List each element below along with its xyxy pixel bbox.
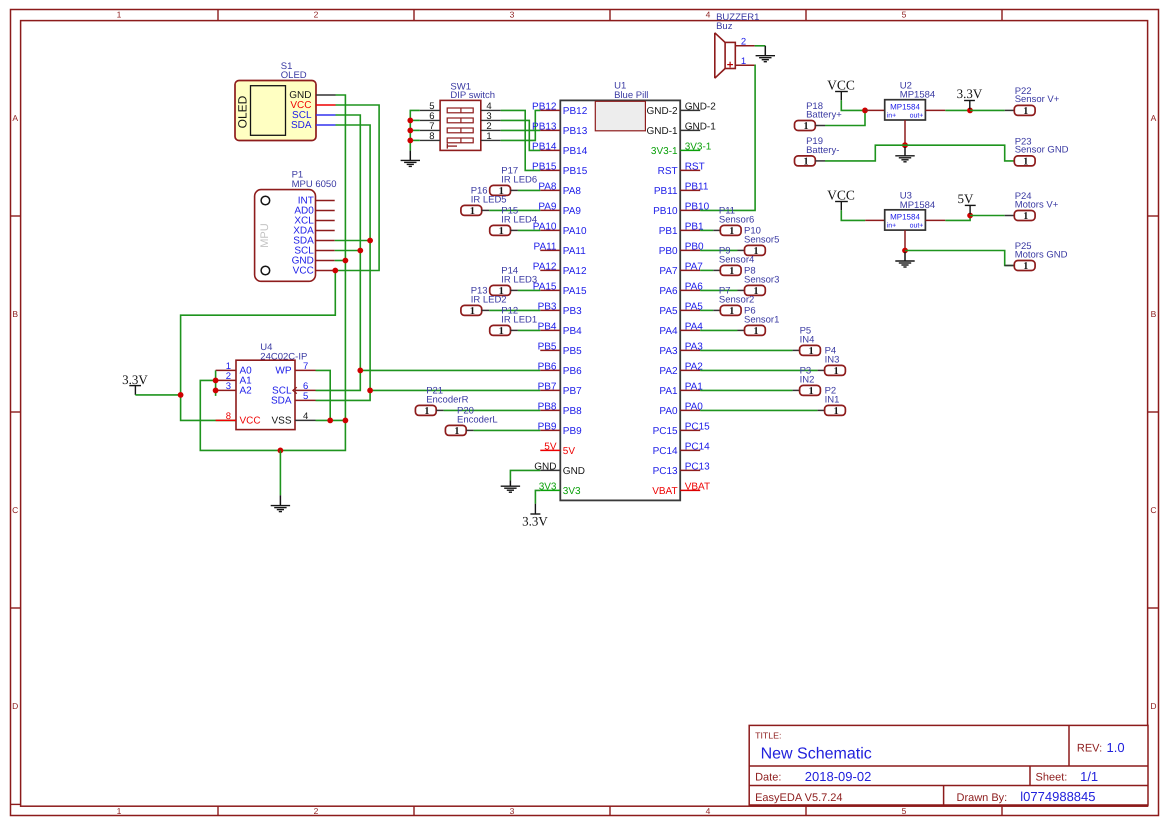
P16 pin 1 stub xyxy=(482,209,489,211)
svg-text:Sensor6: Sensor6 xyxy=(719,214,754,225)
frame tick top xyxy=(805,9,807,20)
SW1 pin 6 xyxy=(420,119,440,121)
connector P22 body xyxy=(1014,105,1035,115)
svg-text:VBAT: VBAT xyxy=(685,481,710,492)
SW1 pin 3 xyxy=(481,119,501,121)
svg-text:3V3-1: 3V3-1 xyxy=(685,141,712,152)
frame tick left xyxy=(10,215,20,217)
wire P12 to U1 xyxy=(518,329,540,331)
svg-text:VCC: VCC xyxy=(293,266,314,277)
svg-text:GND: GND xyxy=(563,466,585,477)
connector P5 body xyxy=(800,345,821,355)
title block REV separator xyxy=(1068,725,1070,766)
svg-text:PB6: PB6 xyxy=(538,361,557,372)
connector P24 body xyxy=(1014,211,1035,221)
svg-text:PB5: PB5 xyxy=(538,341,557,352)
junction U4 VSS GND bus xyxy=(343,418,349,424)
wire U1 GND to ground xyxy=(510,470,540,480)
svg-text:PA8: PA8 xyxy=(563,186,582,197)
svg-text:Blue Pill: Blue Pill xyxy=(614,90,648,101)
svg-text:5: 5 xyxy=(902,806,907,816)
svg-text:Sheet:: Sheet: xyxy=(1036,771,1068,783)
svg-text:PB3: PB3 xyxy=(563,306,582,317)
U1 pin PC15 (right) xyxy=(680,429,700,431)
svg-text:C: C xyxy=(12,505,18,515)
title block outline xyxy=(749,725,1148,805)
U1 pin VBAT (right) xyxy=(680,489,700,491)
svg-text:5V: 5V xyxy=(957,191,974,206)
U1 pin GND-1 (right) xyxy=(680,129,700,131)
U1 pin PB0 (right) xyxy=(680,249,700,251)
junction U4 A2 xyxy=(213,388,219,394)
SW1 switch element 3 xyxy=(447,128,473,133)
svg-text:PB11: PB11 xyxy=(654,186,678,197)
P12 pin 1 stub xyxy=(511,329,518,331)
frame tick right xyxy=(1148,215,1159,217)
OLED display S1 body xyxy=(235,81,316,141)
svg-text:1: 1 xyxy=(808,346,813,357)
svg-text:PB4: PB4 xyxy=(538,321,557,332)
MCU U1 usb connector rect xyxy=(595,101,645,131)
U1 pin 3V3 (left) xyxy=(540,489,560,491)
svg-text:PA4: PA4 xyxy=(659,326,678,337)
P1 pin VCC xyxy=(316,270,335,272)
P2 pin 1 stub xyxy=(818,409,825,411)
S1 pin SDA xyxy=(316,124,336,126)
svg-text:PA9: PA9 xyxy=(538,201,557,212)
wire GND net OLED to MPU to U4-VSS xyxy=(200,95,345,450)
svg-text:REV:: REV: xyxy=(1077,743,1102,755)
wire SW1-2 to PB13 xyxy=(501,129,541,131)
svg-text:PB12: PB12 xyxy=(532,101,557,112)
U1 pin PB14 (left) xyxy=(540,149,560,151)
svg-text:PA11: PA11 xyxy=(563,246,586,257)
buzzer plus mark xyxy=(727,64,733,66)
junction 3.3V bus xyxy=(178,392,184,398)
svg-text:1: 1 xyxy=(753,326,758,337)
svg-text:PB13: PB13 xyxy=(532,121,557,132)
wire U1 to P11 xyxy=(700,229,713,231)
U4 pin A2 xyxy=(216,389,236,391)
ground lead U3 xyxy=(904,252,906,261)
power flag VCC (U3) stem xyxy=(840,202,842,211)
U1 pin PB6 (left) xyxy=(540,369,560,371)
svg-text:1: 1 xyxy=(470,206,475,217)
svg-text:Sensor5: Sensor5 xyxy=(744,234,779,245)
svg-text:New Schematic: New Schematic xyxy=(761,746,872,763)
U1 pin PB1 (right) xyxy=(680,229,700,231)
power flag 3.3V left bar xyxy=(129,385,141,387)
wire P21 to U1 xyxy=(444,409,541,411)
P10 pin 1 stub xyxy=(738,249,745,251)
U1 pin PA8 (left) xyxy=(540,189,560,191)
power flag 3.3V under U1 bar xyxy=(530,513,540,515)
U1 pin PA11 (left) xyxy=(540,249,560,251)
wire SW1-5 to ground bus xyxy=(410,110,420,150)
frame tick left xyxy=(10,411,20,413)
connector P9 body xyxy=(720,265,741,275)
SW1 switch element 4 xyxy=(447,138,473,143)
svg-text:MP1584: MP1584 xyxy=(890,212,920,221)
svg-text:1/1: 1/1 xyxy=(1080,769,1098,784)
svg-text:Sensor V+: Sensor V+ xyxy=(1015,94,1060,105)
SW1 pin 2 xyxy=(481,129,501,131)
wire buzzer-1 to PB10 xyxy=(700,65,755,210)
wire P15 to U1 xyxy=(518,229,540,231)
frame tick bottom xyxy=(217,806,219,816)
S1 pin VCC xyxy=(316,104,336,106)
svg-text:PC13: PC13 xyxy=(653,466,678,477)
wire VCC to U2 in+ xyxy=(841,100,865,110)
ground below U4 xyxy=(271,505,290,507)
P8 pin 1 stub xyxy=(738,289,745,291)
svg-text:PA5: PA5 xyxy=(659,306,678,317)
buzzer BUZZER1 symbol xyxy=(715,33,725,78)
svg-text:PA3: PA3 xyxy=(659,346,678,357)
connector P15 body xyxy=(490,225,511,235)
svg-text:2: 2 xyxy=(314,806,319,816)
wire P14 to U1 xyxy=(518,289,540,291)
U4 pin SCL xyxy=(295,389,316,391)
U1 pin PA0 (right) xyxy=(680,409,700,411)
svg-text:1: 1 xyxy=(1023,106,1028,117)
junction U2 in+ xyxy=(862,108,868,114)
svg-text:7: 7 xyxy=(303,361,308,372)
wire SW1-6 stub xyxy=(410,119,420,121)
P9 pin 1 stub xyxy=(713,269,720,271)
svg-text:TITLE:: TITLE: xyxy=(755,730,781,740)
wire 5V to P24 xyxy=(970,215,1005,217)
junction MPU SDA xyxy=(367,238,373,244)
svg-text:4: 4 xyxy=(706,806,711,816)
U1 pin PB15 (left) xyxy=(540,169,560,171)
svg-text:PB15: PB15 xyxy=(563,166,588,177)
svg-text:out+: out+ xyxy=(910,113,924,120)
frame tick bottom xyxy=(413,806,415,816)
svg-text:VCC: VCC xyxy=(827,187,855,202)
svg-text:IN2: IN2 xyxy=(800,374,815,385)
svg-text:B: B xyxy=(1151,309,1157,319)
junction ground branch U4 xyxy=(278,448,284,454)
connector P14 body xyxy=(490,285,511,295)
title block Sheet separator xyxy=(1029,766,1031,786)
connector P19 body xyxy=(795,156,816,166)
junction SDA PB7 tap xyxy=(367,388,373,394)
ground at buzzer xyxy=(756,55,775,57)
svg-text:EncoderR: EncoderR xyxy=(426,394,468,405)
U1 pin PB3 (left) xyxy=(540,309,560,311)
wire P19 to U2 gnd net xyxy=(825,145,905,161)
SW1 pin 4 xyxy=(481,109,501,111)
connector P18 body xyxy=(795,121,816,131)
ground lead U2 xyxy=(904,147,906,156)
svg-text:3: 3 xyxy=(510,10,515,20)
U1 pin PA6 (right) xyxy=(680,289,700,291)
connector P25 body xyxy=(1014,261,1035,271)
svg-text:PA10: PA10 xyxy=(563,226,587,237)
ground below SW1 xyxy=(401,159,420,161)
U4 pin VCC xyxy=(216,419,236,421)
svg-text:PB10: PB10 xyxy=(653,206,678,217)
svg-text:PC15: PC15 xyxy=(653,426,678,437)
frame tick left bottom xyxy=(10,803,20,805)
junction U4 WP tie xyxy=(327,418,333,424)
wire P13 to U1 xyxy=(489,309,540,311)
U1 pin PB12 (left) xyxy=(540,109,560,111)
svg-text:OLED: OLED xyxy=(281,70,307,81)
wire SW1-3 to PB14 xyxy=(501,120,541,150)
S1 pin GND xyxy=(316,94,336,96)
wire SDA net OLED to U4 xyxy=(316,125,371,400)
svg-text:MPU: MPU xyxy=(259,223,271,248)
connector P21 body xyxy=(415,405,436,415)
svg-text:1: 1 xyxy=(833,366,838,377)
P24 pin 1 stub xyxy=(1005,215,1015,217)
svg-text:IR LED6: IR LED6 xyxy=(501,174,537,185)
svg-text:MP1584: MP1584 xyxy=(890,102,920,111)
svg-text:IR LED1: IR LED1 xyxy=(501,314,537,325)
svg-text:5V: 5V xyxy=(563,446,576,457)
svg-text:1: 1 xyxy=(470,306,475,317)
svg-text:PA7: PA7 xyxy=(659,266,678,277)
power flag 5V stem xyxy=(969,205,971,214)
svg-text:PA2: PA2 xyxy=(659,366,678,377)
svg-text:5: 5 xyxy=(303,391,308,402)
U1 pin 5V (left) xyxy=(540,449,560,451)
P18 pin 1 stub xyxy=(815,125,825,127)
frame tick top xyxy=(217,9,219,20)
svg-text:PB3: PB3 xyxy=(538,301,557,312)
U1 pin 3V3-1 (right) xyxy=(680,149,700,151)
wire SW1-8 stub xyxy=(410,139,420,141)
U1 pin PA7 (right) xyxy=(680,269,700,271)
frame tick bottom xyxy=(805,806,807,816)
U1 pin PA3 (right) xyxy=(680,349,700,351)
svg-text:Drawn By:: Drawn By: xyxy=(957,792,1008,804)
svg-text:PB5: PB5 xyxy=(563,346,582,357)
svg-text:1: 1 xyxy=(117,10,122,20)
wire U1 to P9 xyxy=(700,269,713,271)
power flag 3.3V (U2) bar xyxy=(964,100,975,102)
svg-text:3V3: 3V3 xyxy=(539,481,557,492)
svg-text:PB8: PB8 xyxy=(563,406,582,417)
svg-text:PC14: PC14 xyxy=(685,441,710,452)
MCU U1 Blue Pill body xyxy=(560,100,680,500)
wire VCC to U3 in+ xyxy=(841,210,865,220)
svg-text:VBAT: VBAT xyxy=(652,486,677,497)
connector P20 body xyxy=(445,425,466,435)
wire U1 to P10 xyxy=(700,249,737,251)
frame tick left xyxy=(10,607,20,609)
U1 pin PA9 (left) xyxy=(540,209,560,211)
frame tick right xyxy=(1148,411,1159,413)
SW1 position-1 indicator xyxy=(446,144,448,149)
svg-text:IN1: IN1 xyxy=(825,394,840,405)
svg-text:1: 1 xyxy=(1023,261,1028,272)
junction U2 3.3V xyxy=(967,108,973,114)
wire PB6 to SCL bus xyxy=(360,369,540,371)
MPU6050 P1 hole top xyxy=(261,196,270,205)
svg-text:2: 2 xyxy=(741,36,746,47)
regulator U3 out+ pin xyxy=(925,219,945,221)
svg-text:VSS: VSS xyxy=(271,416,291,427)
U1 pin PA10 (left) xyxy=(540,229,560,231)
svg-text:3: 3 xyxy=(510,806,515,816)
svg-text:PB15: PB15 xyxy=(532,161,557,172)
P14 pin 1 stub xyxy=(511,289,518,291)
svg-text:D: D xyxy=(12,701,18,711)
connector P16 body xyxy=(461,205,482,215)
svg-text:Battery-: Battery- xyxy=(806,145,839,156)
svg-text:MPU 6050: MPU 6050 xyxy=(292,179,337,190)
wire U2 out+ to 3.3V xyxy=(945,109,970,111)
power flag 3.3V left stem xyxy=(134,386,136,395)
svg-text:WP: WP xyxy=(275,366,291,377)
SW1 pin 7 xyxy=(420,129,440,131)
connector P3 body xyxy=(800,385,821,395)
svg-text:IN3: IN3 xyxy=(825,354,840,365)
P1 pin XDA xyxy=(316,230,335,232)
wire ground drop U4 xyxy=(279,450,281,495)
svg-text:PB9: PB9 xyxy=(563,426,582,437)
svg-text:PB7: PB7 xyxy=(563,386,582,397)
svg-text:8: 8 xyxy=(429,131,434,142)
wire U3 out+ to 5V xyxy=(945,216,970,221)
svg-text:1: 1 xyxy=(1023,156,1028,167)
P17 pin 1 stub xyxy=(511,189,518,191)
svg-text:PB7: PB7 xyxy=(538,381,557,392)
P19 pin 1 stub xyxy=(815,160,825,162)
wire U4 WP to VSS xyxy=(316,370,331,420)
P11 pin 1 stub xyxy=(713,229,720,231)
svg-text:3V3: 3V3 xyxy=(563,486,581,497)
power flag VCC (U3) bar xyxy=(835,201,848,203)
U1 pin PA5 (right) xyxy=(680,309,700,311)
svg-text:SDA: SDA xyxy=(291,120,312,131)
svg-text:PB6: PB6 xyxy=(563,366,582,377)
regulator U3 body xyxy=(885,210,926,230)
wire buzzer-2 to ground xyxy=(755,45,766,47)
frame tick top xyxy=(1001,9,1003,20)
svg-text:1: 1 xyxy=(729,306,734,317)
title block row line 1 xyxy=(749,765,1148,767)
svg-text:1: 1 xyxy=(729,266,734,277)
wire U4 A0-A2 tie xyxy=(215,370,217,396)
S1 pin SCL xyxy=(316,114,336,116)
connector P7 body xyxy=(720,305,741,315)
SW1 pin 5 xyxy=(420,109,440,111)
svg-text:D: D xyxy=(1150,701,1156,711)
junction SW1 bus row7 xyxy=(407,127,413,133)
junction SW1 bus row8 xyxy=(407,138,413,144)
P3 pin 1 stub xyxy=(793,389,800,391)
wire P16 to U1 xyxy=(489,209,540,211)
U4 SCL clock mark xyxy=(293,387,297,393)
svg-text:Date:: Date: xyxy=(755,771,781,783)
svg-text:B: B xyxy=(12,309,18,319)
svg-text:SDA: SDA xyxy=(271,396,292,407)
U4 pin VSS xyxy=(295,419,316,421)
svg-text:PB1: PB1 xyxy=(659,226,678,237)
wire VCC net OLED to MPU xyxy=(335,105,379,271)
wire SW1-1 to PB12 xyxy=(501,110,541,140)
power flag 3.3V under U1 stem xyxy=(534,504,536,514)
P4 pin 1 stub xyxy=(818,369,825,371)
U1 pin PB9 (left) xyxy=(540,429,560,431)
svg-text:1: 1 xyxy=(117,806,122,816)
svg-text:PB0: PB0 xyxy=(659,246,678,257)
svg-text:PC13: PC13 xyxy=(685,461,710,472)
U1 pin PB10 (right) xyxy=(680,209,700,211)
regulator U3 gnd pin xyxy=(904,230,906,250)
P15 pin 1 stub xyxy=(511,229,518,231)
connector P17 body xyxy=(490,185,511,195)
connector P6 body xyxy=(745,325,766,335)
svg-text:1: 1 xyxy=(424,406,429,417)
wire MPU SCL stub xyxy=(335,250,361,252)
U1 pin PB5 (left) xyxy=(540,349,560,351)
P22 pin 1 stub xyxy=(1005,109,1015,111)
frame tick right xyxy=(1148,607,1159,609)
svg-text:PC15: PC15 xyxy=(685,421,710,432)
power flag 5V bar xyxy=(965,204,976,206)
svg-text:Buz: Buz xyxy=(716,21,733,32)
svg-text:EasyEDA V5.7.24: EasyEDA V5.7.24 xyxy=(755,792,842,804)
junction U3 5V xyxy=(967,213,973,219)
ground lead below U4 xyxy=(279,495,281,505)
SW1 switch element 1 xyxy=(447,108,473,113)
connector P12 body xyxy=(490,325,511,335)
P5 pin 1 stub xyxy=(793,349,800,351)
U1 pin PA12 (left) xyxy=(540,269,560,271)
svg-text:1: 1 xyxy=(499,226,504,237)
regulator U2 body xyxy=(885,100,926,120)
svg-text:VCC: VCC xyxy=(240,416,261,427)
wire U1 to P7 xyxy=(700,309,713,311)
power flag VCC (U2) bar xyxy=(835,91,848,93)
ground below U2 xyxy=(895,155,914,157)
svg-text:3V3-1: 3V3-1 xyxy=(651,146,678,157)
svg-text:3.3V: 3.3V xyxy=(957,86,983,101)
wire U1 to P6 xyxy=(700,329,737,331)
wire MPU GND stub xyxy=(335,260,346,262)
power flag VCC (U2) stem xyxy=(840,92,842,101)
wire P20 to U1 xyxy=(474,429,541,431)
P21 pin 1 stub xyxy=(436,409,443,411)
connector P2 body xyxy=(825,405,846,415)
svg-text:RST: RST xyxy=(685,161,705,172)
wire U1 to P2 xyxy=(700,409,817,411)
wire P17 to U1 xyxy=(518,189,540,191)
wire U2 gnd to P23 xyxy=(905,145,1014,161)
buzzer pin 1 xyxy=(735,64,754,66)
U4 pin A1 xyxy=(216,379,236,381)
U1 pin PC13 (right) xyxy=(680,469,700,471)
svg-text:PA1: PA1 xyxy=(659,386,678,397)
svg-text:VCC: VCC xyxy=(827,77,855,92)
svg-text:GND-1: GND-1 xyxy=(685,121,717,132)
svg-text:OLED: OLED xyxy=(236,95,250,128)
title block row line 2 xyxy=(749,785,1148,787)
svg-text:PB4: PB4 xyxy=(563,326,582,337)
connector P4 body xyxy=(825,365,846,375)
U1 pin PA1 (right) xyxy=(680,389,700,391)
svg-text:IR LED2: IR LED2 xyxy=(471,294,507,305)
wire SCL net OLED to U4 xyxy=(316,115,361,390)
frame tick bottom xyxy=(609,806,611,816)
svg-text:in+: in+ xyxy=(887,112,897,120)
ground lead below SW1 xyxy=(409,151,411,161)
